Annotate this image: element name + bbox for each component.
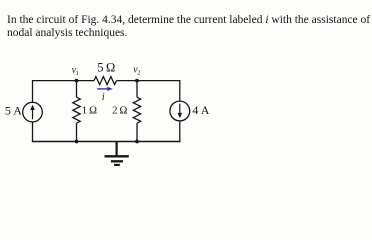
wire: left branch upper (top wire down to 5A source) — [32, 80, 34, 102]
current arrow i (on 5-ohm resistor) — [97, 87, 113, 91]
wire: node v2 to 4A source top — [137, 80, 180, 82]
wire: bottom wire, 1-ohm branch to ground tap — [77, 141, 117, 143]
svg-text:v2: v2 — [133, 65, 140, 77]
wire: right branch lower (4A source to bottom wire) — [179, 121, 181, 142]
ground (reference node symbol) — [105, 142, 129, 165]
node v1 junction dot (top) — [75, 79, 79, 83]
wire: bottom wire, ground tap to 2-ohm branch — [117, 141, 137, 143]
node label v2 — [133, 65, 140, 77]
current source 4A (circle with down arrow) — [170, 101, 190, 121]
node label v1 — [72, 65, 79, 77]
svg-text:4 A: 4 A — [192, 103, 209, 117]
current source 5A (circle with up arrow) — [23, 102, 43, 122]
svg-text:i: i — [102, 92, 105, 103]
junction dot bottom-right (2-ohm to reference) — [135, 140, 139, 144]
label 1 ohm value — [82, 106, 97, 117]
label 4 A — [192, 103, 209, 117]
node v2 junction dot (top) — [135, 79, 139, 83]
wire: node v1 to 5-ohm resistor left lead — [77, 80, 95, 82]
svg-text:5 Ω: 5 Ω — [97, 61, 115, 75]
svg-text:2 Ω: 2 Ω — [112, 106, 127, 117]
svg-text:1 Ω: 1 Ω — [82, 106, 97, 117]
label 5 A — [5, 104, 22, 118]
svg-text:5 A: 5 A — [5, 104, 22, 118]
junction dot bottom-left (1-ohm to reference) — [75, 140, 79, 144]
resistor 5 ohm (horizontal) — [94, 77, 117, 85]
current label i — [102, 92, 105, 103]
label 5 ohm value — [97, 61, 115, 75]
wire: left branch lower (5A source to bottom wire) — [32, 122, 34, 142]
wire: right branch upper (top wire down to 4A source) — [179, 80, 181, 101]
svg-text:v1: v1 — [72, 65, 79, 77]
resistor 2 ohm (vertical) — [133, 81, 140, 143]
wire: 1-ohm branch lower lead to bottom wire — [76, 123, 78, 142]
wire: bottom wire, left corner to 1-ohm branch — [32, 141, 77, 143]
wire: 5-ohm resistor right lead to node v2 — [117, 80, 138, 82]
wire: 1-ohm branch upper lead from node v1 — [76, 81, 78, 98]
wire: top wire, 5A source top to node v1 — [33, 80, 77, 82]
label 2 ohm value — [112, 106, 127, 117]
resistor 1 ohm (vertical) — [73, 97, 80, 123]
wire: bottom wire, 2-ohm branch to right corner — [137, 141, 180, 143]
